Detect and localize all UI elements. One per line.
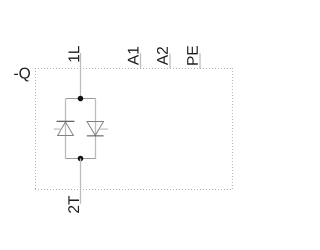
label 2T — [68, 196, 79, 213]
wire top bus — [66, 98, 96, 100]
node bottom junction — [78, 156, 84, 162]
terminal 1L wire — [80, 53, 82, 99]
component outline -Q (dashed enclosure) — [35, 68, 233, 190]
thyristor V2 cathode bar — [87, 135, 104, 137]
thyristor V2 (right, conducts downward) triangle — [87, 122, 104, 136]
terminal 2T wire — [80, 159, 82, 204]
thyristor V1 triangle — [58, 122, 74, 136]
thyristor V2 gate lead — [99, 128, 108, 130]
thyristor V1 gate lead — [54, 128, 62, 130]
label A1 — [128, 47, 139, 65]
label -Q — [14, 68, 30, 82]
terminal A1 wire — [140, 53, 142, 68]
terminal A2 wire — [169, 54, 171, 69]
wire right branch — [95, 99, 97, 159]
label PE — [187, 46, 198, 65]
wire left branch — [65, 99, 67, 159]
thyristor V1 (left, conducts upward): cathode bar — [57, 120, 75, 122]
wire bottom bus — [66, 158, 96, 160]
terminal PE wire — [199, 53, 201, 68]
label 1L — [69, 46, 80, 62]
node top junction — [78, 96, 84, 102]
label A2 — [157, 47, 168, 65]
